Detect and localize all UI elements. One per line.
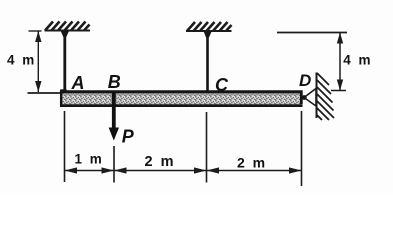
extension line below B (113, 146, 115, 183)
extension line below C (206, 112, 208, 183)
rod top junction blob (61, 31, 70, 38)
svg-text:C: C (215, 75, 229, 95)
svg-text:4 m: 4 m (343, 52, 372, 67)
dimension 4 m (right): bottom arrowhead (337, 80, 343, 91)
dimension 4 m (left): top arrowhead (35, 31, 41, 42)
dimension line 2 m (C-D) (207, 170, 302, 172)
beam right end cap (300, 91, 303, 105)
ceiling base line (left) (45, 30, 91, 32)
dimension 4 m (right): vertical line (339, 33, 341, 91)
dimension 4 m (left): bottom tick (28, 92, 62, 94)
ceiling base line (middle) (186, 30, 232, 32)
node A junction blob (60, 89, 67, 95)
node C junction blob (204, 91, 210, 97)
arrowhead at D pointing right (C-D) (289, 167, 302, 173)
arrowhead at C pointing right (2 m) (194, 167, 207, 173)
dimension 4 m (right): bottom tick (331, 90, 346, 92)
reference line (top right) (277, 32, 347, 34)
beam bottom border (60, 104, 303, 107)
svg-text:1 m: 1 m (75, 152, 104, 167)
svg-text:P: P (122, 126, 135, 146)
beam shade band under top border (61, 93, 301, 95)
hanger rod at C (206, 31, 209, 93)
svg-text:4 m: 4 m (7, 53, 36, 68)
arrowhead at A pointing left (65, 167, 78, 173)
dimension 4 m (left): top tick (29, 30, 42, 32)
pin triangle at D (304, 89, 316, 107)
svg-text:D: D (299, 71, 311, 90)
beam top border (60, 90, 303, 93)
force P arrow shaft (112, 93, 116, 131)
beam left end cap (60, 91, 63, 108)
ceiling support hatch (middle, above C) (187, 22, 232, 31)
wall hatch at D (317, 73, 334, 120)
arrowhead at B pointing left (2 m) (114, 167, 127, 173)
dimension 4 m (right): top arrowhead (337, 33, 343, 44)
arrowhead at B pointing right (1 m) (102, 167, 115, 173)
extension line below D (301, 111, 303, 186)
dimension line 2 m (B-C) (114, 170, 207, 172)
ceiling support hatch (left, above A) (45, 22, 90, 31)
pin dot at D (302, 95, 307, 100)
rod top junction blob at C (204, 31, 212, 38)
dimension 4 m (left): vertical line (37, 31, 39, 92)
hanger rod at A (63, 31, 66, 94)
svg-text:2 m: 2 m (237, 155, 267, 171)
extension line below A (64, 111, 66, 182)
dimension 4 m (left): bottom arrowhead (35, 81, 41, 92)
force P arrowhead (109, 128, 119, 141)
wall line at D (316, 73, 318, 119)
arrowhead at C pointing left (C-D) (207, 167, 220, 173)
svg-text:A: A (71, 73, 85, 93)
dimension line 1 m (A-B) (65, 170, 115, 172)
beam body (stippled) (60, 92, 303, 107)
svg-text:2 m: 2 m (145, 154, 176, 170)
svg-text:B: B (108, 72, 121, 92)
